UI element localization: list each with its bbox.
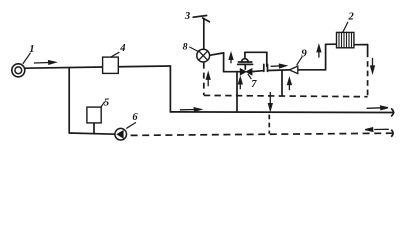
svg-text:9: 9 [301, 48, 307, 60]
svg-text:1: 1 [29, 44, 34, 55]
svg-text:6: 6 [132, 112, 138, 123]
svg-text:8: 8 [183, 42, 188, 53]
svg-text:5: 5 [104, 98, 109, 109]
svg-text:2: 2 [348, 12, 355, 23]
svg-text:7: 7 [251, 79, 257, 90]
svg-text:3: 3 [184, 11, 190, 22]
svg-text:4: 4 [119, 43, 125, 54]
